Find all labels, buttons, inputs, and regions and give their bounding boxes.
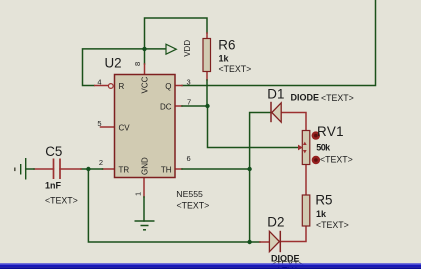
pin 7 stub (red) — [175, 105, 182, 107]
adjust marker bottom (RV1) — [312, 156, 320, 164]
pin 8 stub (red) — [144, 64, 146, 75]
wire VDD junction to VDD arrow — [145, 48, 166, 50]
wire D1 anode to RV1 top (red) — [281, 113, 306, 131]
svg-text:2: 2 — [99, 158, 103, 167]
svg-text:GND: GND — [140, 157, 149, 175]
svg-text:5: 5 — [97, 119, 101, 128]
svg-text:1k: 1k — [316, 209, 327, 219]
adjust marker top (RV1) — [312, 131, 320, 139]
svg-text:D2: D2 — [267, 215, 284, 230]
svg-text:U2: U2 — [105, 55, 122, 70]
wire Q net: right column from top edge down then left to pin3 — [182, 0, 376, 86]
capacitor C5 right pin (red) — [60, 168, 81, 170]
svg-text:C5: C5 — [45, 144, 62, 159]
svg-text:DIODE: DIODE — [291, 93, 320, 103]
wire pin7 to junction — [182, 105, 208, 107]
wire R6 bottom to DC junction — [206, 80, 208, 106]
svg-text:7: 7 — [187, 98, 191, 107]
pin 2 stub (red) — [103, 168, 115, 170]
diode D1 — [271, 102, 281, 122]
svg-text:VDD: VDD — [183, 40, 192, 57]
svg-text:NE555: NE555 — [176, 189, 203, 199]
wire VDD loop top (R6 top feed) — [145, 18, 208, 49]
wire R6 top stub (red) — [206, 33, 208, 39]
node junction DC/R6 — [205, 104, 209, 108]
wire D1 cathode column — [250, 113, 271, 243]
wire pin1 to ground — [143, 197, 145, 221]
svg-text:R: R — [119, 82, 125, 91]
pin 3 stub (red) — [175, 85, 182, 87]
wire RV1 bottom to R5 top (red) — [305, 165, 307, 196]
svg-text:3: 3 — [187, 77, 191, 86]
svg-text:1k: 1k — [219, 54, 230, 64]
node junction TH — [247, 167, 251, 171]
wire R6 bottom stub (red) — [206, 72, 208, 81]
resistor R6 — [203, 39, 211, 72]
wire DC junction down to wiper row — [208, 106, 299, 148]
svg-text:<TEXT>: <TEXT> — [320, 155, 353, 165]
svg-text:4: 4 — [97, 77, 101, 86]
pin 4 stub (red) — [94, 85, 108, 87]
wire bottom run — [88, 169, 260, 242]
pin 1 stub (red) — [143, 178, 145, 198]
svg-text:DC: DC — [160, 102, 172, 111]
pin 6 stub (red) — [175, 168, 182, 170]
diode D2 — [269, 231, 280, 252]
pin 5 CV stub (red) — [101, 126, 115, 128]
resistor R5 — [302, 195, 310, 226]
svg-text:RV1: RV1 — [317, 124, 344, 139]
terminal (input) — [21, 158, 26, 180]
wire D2 anode stub (red) — [260, 241, 270, 243]
svg-text:<TEXT>: <TEXT> — [316, 220, 349, 230]
wire terminal to C5 — [26, 168, 34, 170]
potentiometer RV1 — [298, 131, 310, 165]
node junction D2 — [247, 240, 251, 244]
svg-text:R5: R5 — [315, 193, 332, 208]
pin 4 inversion bubble — [108, 84, 113, 89]
IC U2 (NE555 timer) body — [115, 75, 176, 178]
wire VDD junction left to R-pin loop — [83, 49, 145, 86]
svg-text:50k: 50k — [316, 142, 331, 152]
svg-text:R6: R6 — [218, 38, 235, 53]
RV1 wiper arrowhead — [298, 145, 303, 151]
power symbol VDD arrow — [166, 44, 176, 54]
capacitor C5 left pin (red) — [34, 168, 54, 170]
svg-text:CV: CV — [119, 123, 131, 132]
svg-text:<TEXT>: <TEXT> — [219, 64, 252, 74]
wire C5 right lead to junction — [81, 168, 88, 170]
svg-text:TR: TR — [119, 165, 130, 174]
svg-text:<TEXT>: <TEXT> — [321, 93, 354, 103]
svg-text:8: 8 — [133, 62, 142, 66]
svg-text:1nF: 1nF — [45, 181, 62, 191]
ground — [135, 221, 155, 230]
svg-text:VCC: VCC — [140, 76, 149, 93]
svg-text:<TEXT>: <TEXT> — [177, 201, 210, 211]
wire pin6 TH to junction — [182, 168, 250, 170]
svg-text:<TEXT>: <TEXT> — [45, 196, 78, 206]
wire TR junction to pin2 — [88, 168, 102, 170]
wire pin8 VCC drop — [144, 49, 146, 64]
capacitor C5 plates — [54, 159, 61, 180]
status bar — [0, 263, 421, 265]
node junction TR — [86, 167, 90, 171]
svg-text:1: 1 — [134, 192, 143, 196]
wire R5 bottom to D2 cathode (red) — [281, 226, 307, 242]
node junction VDD — [142, 47, 146, 51]
svg-text:Q: Q — [165, 82, 171, 91]
terminal tick mark — [14, 168, 16, 172]
svg-text:D1: D1 — [267, 86, 284, 101]
svg-text:6: 6 — [187, 154, 191, 163]
svg-text:TH: TH — [161, 165, 172, 174]
